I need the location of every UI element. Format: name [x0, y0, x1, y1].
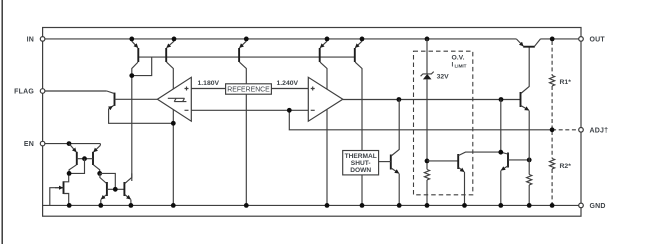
svg-text:DOWN: DOWN: [350, 167, 371, 174]
svg-text:EN: EN: [24, 141, 34, 148]
svg-text:REFERENCE: REFERENCE: [227, 87, 270, 94]
svg-text:OUT: OUT: [590, 36, 606, 43]
svg-text:SHUT-: SHUT-: [351, 160, 371, 167]
svg-text:IN: IN: [27, 36, 34, 43]
svg-text:R2*: R2*: [560, 163, 572, 170]
svg-text:THERMAL: THERMAL: [345, 153, 377, 160]
svg-text:FLAG: FLAG: [14, 89, 34, 96]
svg-text:ADJ†: ADJ†: [590, 127, 609, 134]
svg-text:1.180V: 1.180V: [198, 80, 220, 87]
svg-text:R1*: R1*: [560, 79, 572, 86]
svg-text:I: I: [452, 62, 454, 69]
svg-text:GND: GND: [590, 203, 606, 210]
svg-text:LIMIT: LIMIT: [455, 64, 467, 69]
svg-text:1.240V: 1.240V: [277, 80, 299, 87]
svg-text:32V: 32V: [437, 74, 450, 81]
svg-text:O.V.: O.V.: [452, 55, 465, 62]
